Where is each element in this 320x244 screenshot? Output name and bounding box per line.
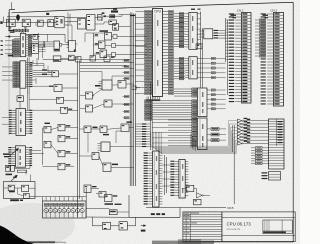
box U6 1.8 — [17, 88, 24, 108]
gate G40 — [105, 195, 118, 202]
gate G25 — [104, 100, 112, 107]
wire bottom run — [92, 217, 135, 226]
wires above transistor box — [43, 197, 87, 201]
wires U5 to gates — [33, 69, 53, 76]
box G31 — [112, 53, 116, 57]
IC U9 mid — [99, 80, 113, 90]
RAM bus labels x142 — [136, 123, 151, 147]
flip-flop FF5 — [78, 19, 86, 30]
label GBGA — [100, 30, 109, 32]
wires U3 area — [26, 34, 78, 58]
wires gates to CPU-left — [85, 33, 147, 57]
gate G19 — [44, 141, 51, 148]
resistor label 4MHz — [9, 30, 15, 33]
junction box on bus — [132, 86, 140, 90]
pins right of U3 — [26, 34, 32, 56]
gate G34 — [22, 185, 29, 191]
wires bottom-left cluster — [4, 171, 43, 197]
pins right of U16 — [159, 153, 162, 204]
wires gates subcircuit — [182, 188, 210, 195]
gate G7 — [109, 20, 116, 24]
label 10k — [6, 174, 13, 176]
IC U16 RAM body — [153, 151, 160, 207]
resistor R-top (dark) — [98, 12, 115, 17]
IC U12 body — [198, 88, 226, 117]
label mid dark — [95, 85, 101, 87]
gate G26 — [105, 33, 112, 41]
gate G9 right of U3 — [32, 35, 40, 40]
transistors T1-T9 — [44, 197, 84, 218]
scan smudge corner right — [178, 239, 201, 244]
pins left of U17 — [170, 161, 179, 196]
counter U2 — [55, 17, 64, 28]
sheet bottom border — [183, 241, 293, 243]
gate G3 — [37, 20, 43, 26]
wires bottom middle — [86, 189, 130, 218]
box G60 — [76, 57, 82, 63]
wire vertical pair x150 — [150, 82, 152, 150]
flip-flop FF6 — [87, 15, 96, 31]
sheet top border — [12, 2, 294, 12]
gate G15 — [61, 107, 73, 113]
gate G14 — [57, 97, 64, 103]
gate G50 — [84, 126, 91, 133]
IC U7 body — [16, 109, 26, 136]
labels left of gates G26-28 — [95, 34, 99, 53]
label dark y55 — [8, 55, 13, 57]
scan smudge under table — [152, 241, 214, 244]
gate G35 — [24, 193, 30, 198]
connector CN3 body — [269, 119, 285, 169]
box G32 — [196, 44, 202, 49]
marks left edge y40 — [1, 40, 3, 55]
wire RC5 line — [146, 206, 234, 210]
wire verticals below U13 left — [191, 134, 196, 151]
IC U8 body — [16, 146, 26, 167]
IC U18 small — [98, 142, 111, 152]
flip-flop FF1 — [7, 19, 16, 28]
wire rows CPU to U11 — [174, 57, 185, 80]
node left-edge mark — [0, 21, 2, 24]
wire long y59.7 — [43, 59, 131, 61]
label 4MHz squiggle — [111, 9, 118, 13]
boxes right of U13 — [207, 128, 226, 142]
pins left of CPU — [136, 11, 152, 95]
box U20 — [67, 41, 76, 52]
label dashes in subcircuit — [151, 213, 165, 215]
gate G42 — [186, 185, 194, 191]
gate G52 — [121, 121, 132, 131]
CPU bottom pin stubs — [146, 97, 160, 101]
wire vertical bus x86 — [85, 188, 87, 217]
scan blob bottom-left — [0, 226, 34, 244]
stub labels left of CN3 — [251, 147, 269, 165]
box U22 — [69, 55, 75, 61]
wires between U16 U17 — [162, 155, 174, 195]
IC U11 body — [185, 57, 226, 79]
gate G38 — [84, 185, 97, 193]
title block right box — [222, 212, 295, 242]
inverters to CN3 — [237, 118, 268, 145]
crystal Y1 4MHz — [16, 14, 20, 21]
title text CPU 06.173 — [227, 222, 252, 231]
connector CN1 body — [242, 13, 252, 104]
gate G13 — [49, 85, 62, 92]
wire rows CPU to U10 — [174, 13, 185, 48]
gate G28 — [100, 50, 107, 58]
gate G4 — [48, 20, 54, 27]
box U21 — [53, 56, 61, 62]
box G29 — [113, 35, 117, 39]
wires IC-B extra — [27, 58, 60, 110]
resistor R 4.7k label — [93, 127, 98, 129]
pins left of U16 — [144, 152, 153, 204]
gate G21 — [58, 163, 70, 170]
gate G27 — [99, 41, 106, 49]
box subcircuit outline — [129, 195, 180, 217]
arrow trim pot — [11, 175, 17, 181]
pins left of U3 — [5, 36, 20, 57]
labels above IC column — [191, 9, 201, 10]
pins right of U8 — [26, 147, 33, 166]
wire clock-chain horizontal — [4, 17, 58, 23]
IC U10 body — [185, 12, 201, 49]
pins left of U8 — [8, 147, 15, 166]
wire vertical x38 — [38, 33, 42, 60]
gate G20 — [58, 150, 70, 157]
wires top-mid to CPU — [95, 15, 136, 27]
box G30 — [112, 44, 116, 48]
wire vertical right of IC column — [201, 12, 235, 205]
wires chain verticals — [7, 17, 72, 45]
wire cap to right — [15, 160, 31, 168]
gate G17 — [58, 124, 70, 131]
capacitor C10 10uF — [6, 165, 15, 171]
transistor array box — [43, 201, 87, 218]
pins left of CN1 — [229, 13, 242, 102]
pins left of U7 — [2, 110, 16, 134]
gate G8 — [113, 24, 119, 31]
sheet left border (top segment) — [9, 2, 15, 31]
caps above CN2 — [263, 15, 269, 19]
resistor pack row boxes — [13, 29, 28, 32]
CPU U1 body — [153, 9, 163, 97]
gate G12 — [52, 71, 59, 77]
wires mid cluster — [79, 128, 133, 168]
junction dot — [46, 13, 49, 15]
title block left table — [183, 212, 222, 242]
gate G33 — [8, 185, 15, 192]
wire bus left of CN1 — [226, 18, 229, 95]
box U19 — [54, 41, 62, 51]
pins right of U5 — [26, 62, 33, 87]
gate G18 — [58, 135, 70, 142]
IC U17 ROM body — [179, 160, 185, 199]
box G61 — [90, 56, 96, 62]
arrow Fm — [141, 225, 146, 232]
wire rows CPU to U12 — [174, 88, 197, 97]
label 370/c — [10, 199, 23, 201]
gate G51 — [100, 126, 109, 135]
sheet left border faint — [8, 12, 10, 135]
title small table — [263, 220, 292, 234]
box G44 — [194, 199, 202, 205]
gate G24 — [86, 105, 93, 112]
IC U4 small — [29, 44, 46, 54]
IC U5 body — [20, 61, 26, 88]
gate G46 — [119, 222, 127, 230]
gate G22 — [118, 81, 126, 89]
small box top-mid — [98, 15, 103, 21]
label AB arrow — [3, 149, 19, 158]
wires gates to mid bus — [59, 74, 78, 110]
gate G53 — [92, 153, 99, 160]
caps above CN1 — [231, 15, 237, 19]
sheet right border — [292, 2, 294, 242]
resistor R-mid squiggle — [105, 203, 122, 205]
pins right of U7 — [26, 110, 33, 134]
wire rows lower to U12 — [145, 100, 197, 121]
wires gate column — [29, 128, 78, 167]
gate G16 — [44, 123, 51, 133]
wire chain to mid — [65, 18, 87, 26]
box U15 below CN3 — [262, 172, 281, 181]
wire bus right of U5 — [27, 58, 29, 95]
box U14 latch — [199, 29, 226, 39]
gate G23 — [86, 92, 94, 99]
box G62 — [104, 56, 115, 62]
gate G43 triangle — [197, 193, 204, 198]
wire vertical bus x77 — [78, 61, 80, 217]
wire vertical bus group x130-136 — [130, 13, 135, 187]
wire bundle nest — [151, 121, 238, 154]
connector CN2 body — [274, 13, 284, 107]
gate G41 — [109, 210, 117, 215]
flip-flop FF2 — [22, 19, 30, 28]
pins right of U17 — [185, 161, 188, 195]
pins left of CN2 — [255, 13, 274, 104]
gate G45 — [102, 223, 110, 230]
wires mid rows — [80, 63, 134, 109]
gate G54 — [103, 163, 118, 172]
wires right of U2 — [68, 13, 70, 28]
bus labels left column — [123, 59, 130, 118]
IC U3 body — [20, 32, 25, 57]
IC U13 body — [153, 118, 207, 150]
box oscillator outline — [4, 182, 36, 199]
scan blob tail — [28, 241, 66, 243]
pins right of CPU — [163, 11, 174, 95]
small box above cluster — [17, 170, 26, 172]
pins left of U5 — [2, 62, 20, 88]
gate G39 — [99, 192, 106, 198]
